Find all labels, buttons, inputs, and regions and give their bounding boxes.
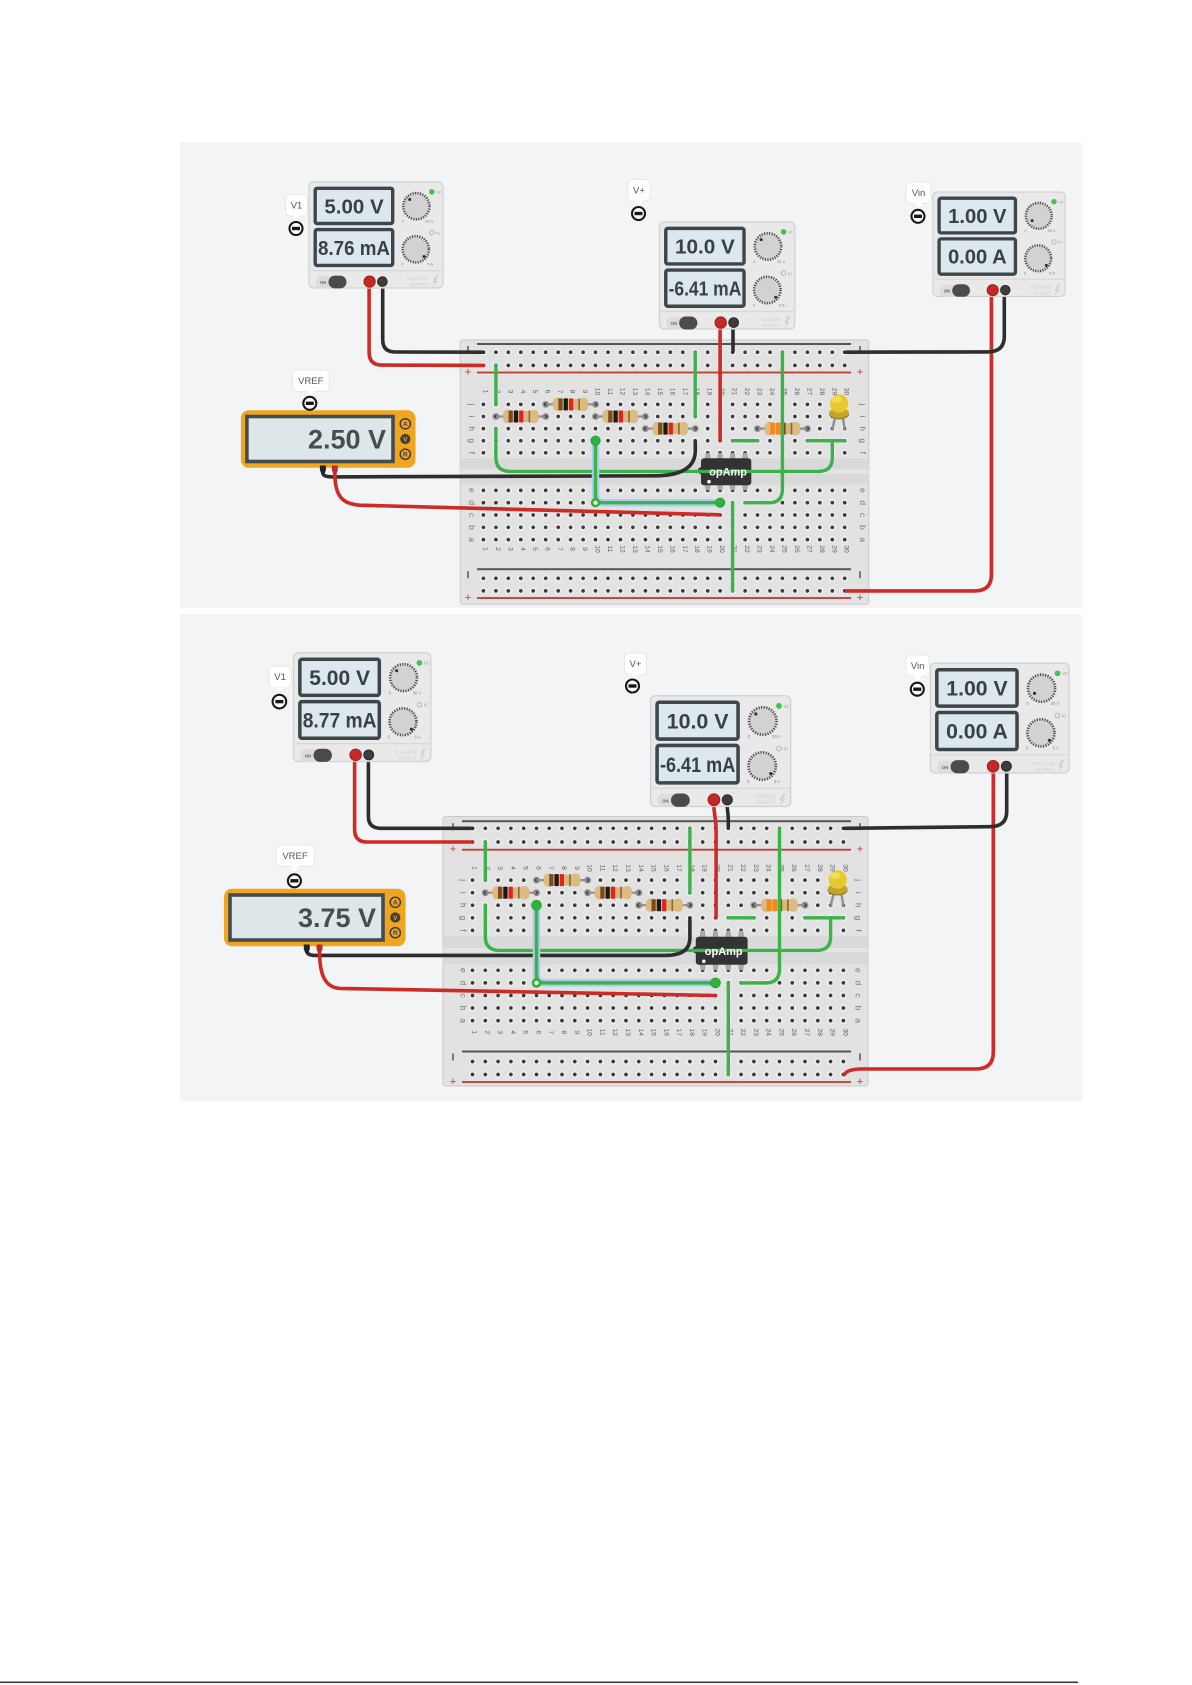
svg-text:12: 12	[611, 864, 618, 872]
minus badge VREF (panel 2)	[288, 874, 301, 887]
svg-text:17: 17	[675, 864, 682, 872]
svg-text:d: d	[459, 981, 469, 986]
svg-text:27: 27	[805, 388, 812, 396]
svg-text:b: b	[467, 525, 477, 530]
svg-text:1.00 V: 1.00 V	[948, 206, 1007, 228]
svg-text:24: 24	[765, 864, 772, 872]
svg-text:3: 3	[506, 390, 513, 394]
svg-text:V: V	[393, 915, 398, 922]
label V+	[628, 180, 650, 207]
svg-text:10: 10	[594, 545, 601, 553]
svg-text:13: 13	[624, 1029, 631, 1037]
svg-text:5 A: 5 A	[779, 302, 785, 307]
svg-text:5 A: 5 A	[415, 734, 421, 739]
wire V+ red (to g20)	[718, 326, 722, 441]
wire W11 green (- rail col25 to d22)	[741, 828, 779, 983]
svg-text:28: 28	[816, 1029, 823, 1037]
label V+ (panel 2)	[625, 653, 647, 680]
svg-text:27: 27	[805, 545, 812, 553]
wire V+ red (to g20, panel 2)	[714, 800, 717, 918]
svg-text:IC: IC	[788, 271, 792, 276]
svg-text:i: i	[467, 416, 477, 418]
svg-text:opAmp: opAmp	[709, 467, 747, 479]
svg-text:11: 11	[598, 1029, 605, 1036]
svg-text:10.0 V: 10.0 V	[675, 236, 735, 259]
svg-text:h: h	[467, 426, 477, 431]
breadboard (panel 1)	[460, 340, 869, 604]
svg-text:25: 25	[780, 545, 787, 553]
svg-text:VC: VC	[1062, 671, 1068, 676]
svg-text:14: 14	[637, 1029, 644, 1037]
resistor R9 (1k, rows h14-h18)	[636, 899, 692, 912]
svg-text:e: e	[854, 968, 864, 973]
svg-text:h: h	[854, 903, 864, 908]
svg-text:12: 12	[619, 388, 626, 396]
multimeter VREF (panel 2)	[224, 889, 406, 947]
svg-text:-6.41 mA: -6.41 mA	[660, 753, 735, 777]
label VREF	[293, 370, 330, 397]
wire W8 green selected (g10 to d20 via d10)	[596, 441, 721, 503]
svg-text:Vin: Vin	[911, 661, 925, 672]
svg-text:11: 11	[606, 545, 613, 552]
svg-text:16: 16	[668, 388, 675, 396]
resistor R8 (1k, rows i10-i14)	[585, 886, 641, 899]
svg-text:3: 3	[496, 866, 503, 870]
svg-text:26: 26	[793, 388, 800, 396]
wire W5 green (g21 to g23)	[733, 439, 758, 442]
svg-text:22: 22	[739, 864, 746, 872]
wire W15 green (d21 to bottom + rail)	[727, 983, 730, 1075]
resistor R2 (1k, rows j6-j10)	[543, 398, 598, 411]
op-amp U2 label	[702, 946, 743, 963]
svg-text:30: 30	[843, 388, 850, 396]
node junction d20 (panel 2)	[711, 978, 721, 988]
svg-text:18: 18	[693, 545, 700, 553]
svg-text:9: 9	[573, 866, 580, 870]
svg-text:10.0 V: 10.0 V	[667, 709, 730, 733]
svg-text:VREF: VREF	[298, 376, 324, 387]
wire Vin red (to bottom + rail)	[847, 295, 992, 591]
svg-text:SUPPLY: SUPPLY	[1035, 767, 1055, 773]
resistor R10 (330, rows h23-h27)	[751, 899, 807, 912]
svg-text:5 A: 5 A	[1053, 746, 1059, 751]
wire W10 green (- rail to i18)	[688, 828, 691, 892]
svg-text:19: 19	[706, 388, 713, 396]
svg-text:5.00 V: 5.00 V	[309, 667, 370, 690]
svg-text:28: 28	[816, 864, 823, 872]
multimeter probes VREF (panel 2)	[304, 945, 323, 954]
LED D1 (h29-h30)	[829, 394, 849, 429]
svg-text:d: d	[467, 500, 477, 505]
wire Vin black (to top - rail)	[847, 295, 1005, 352]
svg-text:a: a	[858, 537, 868, 542]
svg-text:14: 14	[643, 545, 650, 553]
label Vin (panel 2)	[906, 655, 930, 682]
svg-text:+: +	[465, 592, 471, 604]
svg-text:0.00 A: 0.00 A	[948, 247, 1007, 269]
svg-text:14: 14	[637, 864, 644, 872]
label V1 (panel 2)	[269, 666, 292, 693]
svg-text:26: 26	[790, 1029, 797, 1037]
svg-text:d: d	[858, 500, 868, 505]
svg-text:8: 8	[569, 390, 576, 394]
svg-text:7: 7	[556, 390, 563, 394]
svg-text:4: 4	[519, 547, 526, 551]
minus badge V1 (panel 2)	[273, 695, 287, 709]
svg-text:10: 10	[594, 388, 601, 396]
svg-text:6: 6	[535, 866, 542, 870]
svg-text:SUPPLY: SUPPLY	[757, 800, 777, 806]
svg-text:IC: IC	[784, 746, 788, 751]
svg-text:30: 30	[841, 864, 848, 872]
svg-text:21: 21	[731, 388, 738, 396]
svg-text:4: 4	[509, 1030, 516, 1034]
svg-text:16: 16	[662, 864, 669, 872]
svg-text:13: 13	[624, 864, 631, 872]
svg-text:24: 24	[768, 545, 775, 553]
svg-text:19: 19	[706, 545, 713, 553]
voltage supply V1	[309, 182, 443, 288]
svg-text:ON: ON	[305, 754, 311, 759]
svg-text:9: 9	[581, 390, 588, 394]
multimeter probes VREF	[320, 466, 338, 475]
svg-text:26: 26	[793, 545, 800, 553]
svg-text:R: R	[403, 452, 408, 459]
page footer rule	[0, 1682, 1078, 1684]
svg-text:30 V: 30 V	[425, 219, 434, 224]
op-amp U1	[698, 453, 751, 490]
svg-text:3: 3	[496, 1030, 503, 1034]
svg-text:b: b	[858, 525, 868, 530]
svg-text:h: h	[858, 426, 868, 431]
svg-text:20: 20	[714, 1029, 721, 1037]
svg-text:g: g	[854, 915, 864, 920]
svg-text:28: 28	[818, 545, 825, 553]
wire V+ black (to top - rail)	[731, 326, 735, 351]
wire VREF black (to g18, panel 2)	[307, 919, 690, 956]
svg-text:VC: VC	[436, 190, 442, 195]
svg-text:17: 17	[675, 1029, 682, 1037]
svg-text:6: 6	[535, 1030, 542, 1034]
svg-text:a: a	[467, 537, 477, 542]
svg-text:VOLTAGE: VOLTAGE	[407, 276, 429, 282]
op-amp U2	[693, 931, 748, 971]
svg-text:+: +	[857, 592, 863, 604]
wire W2 green (- rail to i18)	[694, 352, 697, 416]
svg-text:11: 11	[606, 388, 613, 395]
svg-text:28: 28	[818, 388, 825, 396]
svg-text:IC: IC	[436, 230, 440, 235]
svg-text:9: 9	[581, 547, 588, 551]
svg-text:V+: V+	[630, 659, 642, 670]
svg-text:5 A: 5 A	[1049, 270, 1055, 275]
svg-text:VC: VC	[788, 230, 794, 235]
svg-text:IC: IC	[1062, 713, 1066, 718]
svg-text:j: j	[854, 878, 864, 881]
svg-text:26: 26	[790, 864, 797, 872]
svg-text:+: +	[450, 844, 456, 856]
minus badge V+ (panel 2)	[626, 680, 639, 693]
svg-text:30 V: 30 V	[772, 734, 781, 739]
node junction g10	[591, 436, 600, 445]
svg-text:7: 7	[556, 547, 563, 551]
svg-text:j: j	[467, 402, 477, 405]
svg-text:b: b	[854, 1006, 864, 1011]
svg-text:16: 16	[668, 545, 675, 553]
svg-text:g: g	[467, 438, 477, 443]
wire V1 red (+ to top + rail)	[369, 289, 483, 365]
svg-text:6: 6	[544, 390, 551, 394]
svg-text:29: 29	[830, 388, 837, 396]
voltage supply V+ (panel 2)	[651, 696, 791, 807]
svg-text:8: 8	[560, 1030, 567, 1034]
node junction h6	[532, 900, 542, 910]
svg-text:ON: ON	[671, 321, 677, 326]
minus badge V+	[632, 207, 645, 220]
svg-text:e: e	[459, 968, 469, 973]
svg-text:21: 21	[726, 864, 733, 872]
minus badge Vin (panel 2)	[911, 683, 924, 696]
wire W4 green (h2 along channel to g29)	[496, 429, 832, 472]
svg-text:15: 15	[656, 545, 663, 553]
wire W13 green (g21 to g23)	[728, 916, 754, 919]
svg-text:11: 11	[598, 864, 605, 871]
svg-text:10: 10	[586, 1029, 593, 1037]
svg-text:j: j	[858, 402, 868, 405]
svg-text:e: e	[858, 488, 868, 493]
svg-text:VREF: VREF	[282, 851, 308, 862]
svg-text:SUPPLY: SUPPLY	[1033, 290, 1052, 296]
svg-text:12: 12	[611, 1029, 618, 1037]
svg-text:+: +	[465, 367, 471, 379]
svg-text:5: 5	[531, 547, 538, 551]
svg-text:VC: VC	[784, 704, 790, 709]
svg-text:4: 4	[519, 390, 526, 394]
svg-text:16: 16	[662, 1029, 669, 1037]
wire V1 black (- to top - rail)	[383, 289, 484, 352]
svg-text:13: 13	[631, 388, 638, 396]
voltage supply V+	[660, 222, 795, 329]
svg-text:29: 29	[829, 1029, 836, 1037]
svg-text:30 V: 30 V	[413, 690, 422, 695]
svg-text:23: 23	[756, 388, 763, 396]
svg-text:13: 13	[631, 545, 638, 553]
voltage supply Vin	[933, 192, 1065, 297]
label Vin	[906, 182, 931, 209]
svg-text:+: +	[857, 367, 863, 379]
resistor R6 (1k, rows i2-i6)	[483, 886, 539, 899]
svg-text:4: 4	[509, 866, 516, 870]
svg-text:VOLTAGE: VOLTAGE	[1030, 285, 1052, 291]
svg-text:d: d	[854, 981, 864, 986]
wire V1 black (- to top - rail, panel 2)	[368, 760, 472, 828]
svg-text:SUPPLY: SUPPLY	[762, 323, 781, 329]
svg-text:g: g	[858, 438, 868, 443]
svg-text:h: h	[459, 903, 469, 908]
svg-text:15: 15	[650, 1029, 657, 1037]
svg-text:22: 22	[743, 388, 750, 396]
wire VREF red (to c20, panel 2)	[320, 951, 716, 996]
svg-text:V+: V+	[633, 185, 645, 196]
wire W12 green (h2 along channel to g29)	[485, 905, 830, 950]
svg-text:2: 2	[494, 547, 501, 551]
svg-text:VOLTAGE: VOLTAGE	[1032, 761, 1055, 767]
svg-text:18: 18	[688, 1029, 695, 1037]
resistor R1 (1k, rows i2-i6)	[493, 410, 548, 423]
svg-text:SUPPLY: SUPPLY	[410, 282, 429, 288]
svg-text:ON: ON	[942, 765, 949, 770]
svg-text:ON: ON	[662, 798, 669, 803]
svg-text:2: 2	[483, 1030, 490, 1034]
svg-text:25: 25	[778, 1029, 785, 1037]
svg-text:30 V: 30 V	[1048, 228, 1056, 233]
svg-text:+: +	[857, 844, 863, 856]
wire W14 green (g27 to g30)	[805, 916, 843, 919]
svg-text:8: 8	[569, 547, 576, 551]
svg-text:V1: V1	[291, 200, 303, 211]
label V1	[286, 195, 308, 222]
label VREF (panel 2)	[276, 845, 314, 872]
svg-text:15: 15	[650, 864, 657, 872]
voltage supply V1 (panel 2)	[294, 653, 431, 762]
wire Vin black (to top - rail, panel 2)	[844, 768, 1006, 828]
svg-text:i: i	[858, 416, 868, 418]
svg-text:24: 24	[765, 1029, 772, 1037]
svg-text:b: b	[459, 1006, 469, 1011]
svg-text:3: 3	[506, 547, 513, 551]
svg-text:29: 29	[830, 545, 837, 553]
svg-text:a: a	[854, 1018, 864, 1023]
resistor R4 (1k, rows h14-h18)	[643, 422, 698, 435]
svg-text:8: 8	[560, 866, 567, 870]
node bend d6 (open)	[533, 979, 540, 986]
svg-text:23: 23	[756, 545, 763, 553]
wire W7 green (d21 to bottom + rail)	[731, 503, 734, 591]
minus badge V1	[290, 222, 303, 235]
svg-text:+: +	[857, 1076, 863, 1088]
svg-text:5.00 V: 5.00 V	[324, 195, 384, 218]
svg-text:2.50 V: 2.50 V	[308, 425, 386, 455]
svg-text:A: A	[403, 421, 408, 428]
svg-text:A: A	[393, 900, 398, 907]
svg-text:ON: ON	[944, 289, 950, 294]
svg-text:V1: V1	[274, 672, 286, 683]
svg-text:7: 7	[547, 1030, 554, 1034]
svg-text:0.00 A: 0.00 A	[946, 721, 1008, 744]
svg-text:a: a	[459, 1018, 469, 1023]
svg-text:Vin: Vin	[912, 188, 926, 199]
svg-text:17: 17	[681, 545, 688, 553]
svg-text:1: 1	[471, 866, 478, 870]
svg-text:g: g	[459, 915, 469, 920]
svg-text:5 A: 5 A	[774, 779, 780, 784]
svg-text:22: 22	[743, 545, 750, 553]
wire VREF black (to g18)	[323, 442, 695, 477]
svg-text:VOLTAGE: VOLTAGE	[394, 749, 417, 755]
breadboard (panel 2)	[443, 817, 868, 1089]
svg-text:IC: IC	[424, 703, 428, 708]
wire W1 green (+ rail to j2)	[494, 365, 497, 404]
resistor R5 (330, rows h23-h27)	[755, 422, 810, 435]
svg-text:5 A: 5 A	[427, 262, 433, 267]
svg-text:VOLTAGE: VOLTAGE	[759, 317, 782, 323]
svg-text:22: 22	[739, 1029, 746, 1037]
svg-text:30 V: 30 V	[777, 259, 786, 264]
svg-text:j: j	[459, 878, 469, 881]
svg-text:27: 27	[803, 864, 810, 872]
svg-text:SUPPLY: SUPPLY	[398, 755, 418, 761]
svg-text:30 V: 30 V	[1051, 701, 1060, 706]
svg-text:7: 7	[547, 866, 554, 870]
svg-text:ON: ON	[320, 280, 326, 285]
svg-text:e: e	[467, 488, 477, 493]
minus badge VREF	[303, 397, 316, 410]
wire Vin red (to bottom + rail, panel 2)	[844, 768, 993, 1075]
svg-text:23: 23	[752, 1029, 759, 1037]
svg-text:1.00 V: 1.00 V	[946, 678, 1007, 701]
svg-text:30: 30	[841, 1029, 848, 1037]
svg-text:27: 27	[803, 1029, 810, 1037]
svg-text:15: 15	[656, 388, 663, 396]
voltage supply Vin (panel 2)	[930, 663, 1069, 773]
svg-text:17: 17	[681, 388, 688, 396]
wire W16 green selected (h6 to d20 via d6)	[537, 905, 716, 983]
node junction d20	[716, 498, 725, 507]
svg-text:9: 9	[573, 1030, 580, 1034]
svg-text:23: 23	[752, 864, 759, 872]
svg-text:6: 6	[544, 547, 551, 551]
resistor R7 (1k, rows j6-j10)	[534, 874, 590, 887]
svg-text:20: 20	[718, 545, 725, 553]
wire V+ black (to top - rail, panel 2)	[727, 800, 728, 827]
svg-text:5: 5	[531, 390, 538, 394]
multimeter VREF	[241, 410, 416, 468]
svg-text:1: 1	[481, 547, 488, 551]
svg-text:12: 12	[619, 545, 626, 553]
minus badge Vin	[912, 210, 925, 223]
svg-text:i: i	[459, 892, 469, 894]
svg-text:+: +	[450, 1076, 456, 1088]
svg-text:1: 1	[481, 390, 488, 394]
svg-text:i: i	[854, 892, 864, 894]
node bend d10 (open)	[592, 499, 599, 506]
svg-text:VC: VC	[424, 661, 430, 666]
svg-text:opAmp: opAmp	[705, 946, 743, 958]
resistor R3 (1k, rows i10-i14)	[593, 410, 648, 423]
panel 2 canvas background	[180, 614, 1082, 1102]
svg-text:-6.41 mA: -6.41 mA	[669, 278, 742, 301]
svg-text:V: V	[403, 436, 408, 443]
svg-text:8.77 mA: 8.77 mA	[303, 709, 377, 732]
wire VREF red (to c20)	[335, 473, 720, 515]
wire W6 green (g27 to g30)	[807, 439, 844, 442]
wire W3 green (- rail col25 to d22)	[745, 352, 782, 503]
wire W9 green (+ rail to j2)	[484, 842, 487, 880]
svg-text:30: 30	[843, 545, 850, 553]
svg-text:R: R	[393, 930, 398, 937]
svg-text:1: 1	[471, 1030, 478, 1034]
svg-text:24: 24	[768, 388, 775, 396]
svg-text:5: 5	[522, 866, 529, 870]
svg-text:10: 10	[586, 864, 593, 872]
svg-text:VC: VC	[1058, 199, 1064, 204]
svg-text:3.75 V: 3.75 V	[298, 903, 376, 933]
svg-text:IC: IC	[1058, 240, 1062, 245]
op-amp U1 label	[707, 467, 747, 484]
LED D2 (h29-h30)	[828, 870, 848, 906]
wire V1 red (+ to top + rail, panel 2)	[355, 760, 473, 842]
svg-text:19: 19	[701, 864, 708, 872]
